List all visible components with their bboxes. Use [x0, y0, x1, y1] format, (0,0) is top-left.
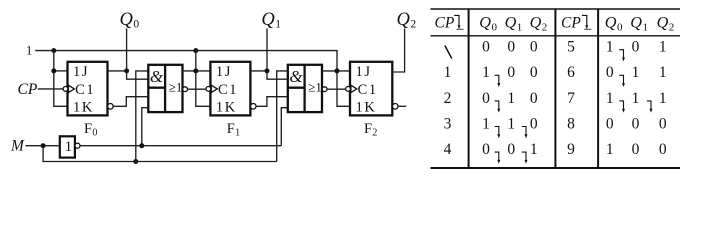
table row R4 (CP=8 state 000) [567, 115, 667, 132]
wire F0 Qbar to G1 OR-cell input [113, 97, 148, 107]
svg-text:0: 0 [530, 115, 538, 132]
table header CP left [435, 15, 464, 32]
svg-text:1: 1 [632, 90, 640, 107]
svg-text:1: 1 [606, 141, 614, 158]
junction constant-1 rail to F0 J/K branch [51, 48, 56, 53]
svg-text:Q2: Q2 [397, 10, 417, 31]
svg-text:≥1: ≥1 [308, 80, 322, 95]
wire constant-1 rail with corner down to F2 J input [35, 51, 337, 71]
svg-text:8: 8 [567, 115, 575, 132]
table top border [431, 8, 681, 10]
junction constant-1 rail to F1 J/K branch [193, 48, 198, 53]
svg-text:Q1: Q1 [505, 14, 523, 34]
svg-text:5: 5 [567, 39, 575, 56]
svg-text:F0: F0 [84, 121, 97, 139]
wire F2 Q output up to Q2 label [392, 29, 404, 73]
svg-text:7: 7 [567, 90, 575, 107]
svg-text:1: 1 [482, 64, 490, 81]
table column divider 3 [597, 9, 599, 168]
wire G1 output to F1 clock [188, 88, 207, 90]
flip-flop F0 (JK, negative edge) [63, 62, 113, 116]
junction J branch F2 [335, 68, 340, 73]
svg-text:C1: C1 [218, 82, 238, 98]
table row L5 (CP=4 state 001) [444, 141, 538, 164]
table row L3 (CP=2 state 010) [444, 90, 538, 113]
svg-text:&: & [289, 67, 303, 86]
svg-text:6: 6 [567, 64, 575, 81]
svg-text:0: 0 [632, 39, 640, 56]
svg-text:0: 0 [507, 39, 515, 56]
svg-text:Q2: Q2 [530, 14, 548, 34]
svg-text:1: 1 [606, 39, 614, 56]
wire CP to F0 clock [38, 88, 64, 90]
wire F1 Q output to Q1 node [250, 70, 267, 72]
svg-text:3: 3 [444, 115, 452, 132]
table header CP right [561, 15, 591, 32]
svg-text:1: 1 [632, 64, 640, 81]
svg-text:C1: C1 [75, 82, 95, 98]
wire F0 Q output to Q0 node [108, 70, 127, 72]
wire M rail up to G1 AND input [136, 71, 149, 162]
wire Q1 vertical and drop into gate G2 AND input [267, 29, 288, 80]
svg-text:1: 1 [507, 90, 515, 107]
svg-text:2: 2 [444, 90, 452, 107]
junction M rail tap for G1 [133, 159, 138, 164]
table header Q0 Q1 Q2 left [479, 14, 547, 34]
svg-text:Q0: Q0 [605, 14, 623, 34]
svg-text:0: 0 [482, 39, 490, 56]
junction J branch F1 [193, 68, 198, 73]
svg-text:0: 0 [632, 115, 640, 132]
svg-text:1: 1 [659, 64, 667, 81]
table column divider 2 [554, 9, 556, 168]
svg-text:Q1: Q1 [261, 10, 281, 31]
wire M rail (uninverted) along bottom [43, 146, 277, 162]
wire F1 Qbar to G2 OR-cell input [256, 97, 288, 107]
wire F0 1J input stub [54, 70, 68, 72]
label F0 [84, 121, 97, 139]
table header underline [431, 35, 681, 37]
svg-text:0: 0 [482, 141, 490, 158]
wire F1 1J input line [183, 70, 211, 72]
svg-text:1J: 1J [73, 64, 89, 80]
svg-text:M: M [10, 138, 25, 155]
svg-text:1K: 1K [356, 100, 377, 116]
svg-text:0: 0 [632, 141, 640, 158]
table bottom border [431, 167, 681, 169]
svg-text:0: 0 [507, 141, 515, 158]
svg-text:CP: CP [561, 15, 581, 32]
wire Mbar rail from inverter to G2 riser [80, 145, 281, 147]
svg-text:1: 1 [659, 90, 667, 107]
svg-text:F1: F1 [227, 121, 240, 139]
inverter U1 (logic 1 box) [60, 136, 80, 157]
svg-text:CP: CP [18, 81, 38, 98]
gate G2 (AND-OR-invert clock gate) [288, 65, 327, 112]
wire F2 Qbar stub [398, 105, 406, 107]
svg-text:1: 1 [482, 115, 490, 132]
table row R2 (CP=6 state 011) [567, 64, 667, 87]
svg-text:9: 9 [567, 141, 575, 158]
node Q1 label [261, 10, 281, 31]
node M label [10, 138, 25, 155]
wire F1 J-K tie from rail down to 1K [196, 51, 211, 107]
svg-text:1: 1 [606, 90, 614, 107]
label F2 [364, 121, 377, 139]
svg-text:1: 1 [65, 139, 73, 155]
svg-text:Q0: Q0 [479, 14, 497, 34]
table row L4 (CP=3 state 110) [444, 115, 538, 138]
wire M rail corner up to G2 AND input [277, 71, 288, 162]
svg-text:0: 0 [659, 115, 667, 132]
node Q0 label [120, 10, 140, 31]
label F1 [227, 121, 240, 139]
svg-text:1: 1 [530, 141, 538, 158]
flip-flop F1 (JK, negative edge) [206, 62, 256, 116]
svg-text:0: 0 [530, 90, 538, 107]
svg-text:0: 0 [606, 115, 614, 132]
wire F2 1J input line [322, 70, 350, 72]
wire Q0 vertical and drop into gate G1 AND input [127, 29, 149, 80]
wire F0 J-K tie from rail down to 1K [54, 51, 68, 107]
wire F2 J-K tie continues down to 1K [337, 71, 350, 106]
junction Q0 node [124, 68, 129, 73]
svg-text:&: & [150, 67, 164, 86]
junction Q1 node [265, 68, 270, 73]
table row R3 (CP=7 state 111) [567, 90, 667, 113]
table header Q0 Q1 Q2 right [605, 14, 675, 34]
junction J branch F0 [51, 68, 56, 73]
svg-text:1K: 1K [216, 100, 237, 116]
wire Mbar rail corner up to G2 OR-cell input [281, 108, 288, 146]
svg-text:C1: C1 [358, 82, 378, 98]
svg-text:F2: F2 [364, 121, 377, 139]
svg-text:CP: CP [435, 15, 455, 32]
table row R1 (CP=5 state 101) [567, 39, 667, 62]
table column divider 1 [468, 9, 470, 168]
svg-text:0: 0 [606, 64, 614, 81]
svg-text:1: 1 [444, 64, 452, 81]
junction Mbar rail tap for G1 [139, 143, 144, 148]
node Q2 label [397, 10, 417, 31]
svg-text:0: 0 [482, 90, 490, 107]
wire M input to inverter [26, 145, 60, 147]
svg-text:4: 4 [444, 141, 452, 158]
svg-text:1J: 1J [216, 64, 232, 80]
svg-text:1: 1 [659, 39, 667, 56]
svg-text:0: 0 [530, 39, 538, 56]
junction M input branch [41, 143, 46, 148]
svg-text:Q1: Q1 [630, 14, 648, 34]
table row L1 (CP= state 000) [445, 39, 538, 59]
svg-text:0: 0 [530, 64, 538, 81]
svg-text:0: 0 [659, 141, 667, 158]
svg-text:1J: 1J [356, 64, 372, 80]
wire Mbar rail up to G1 OR-cell input [142, 108, 149, 146]
svg-text:Q2: Q2 [657, 14, 675, 34]
svg-text:1: 1 [26, 44, 32, 58]
flip-flop F2 (JK, negative edge) [346, 62, 398, 116]
svg-text:1: 1 [507, 115, 515, 132]
wire G2 output to F2 clock [327, 88, 346, 90]
svg-text:0: 0 [507, 64, 515, 81]
svg-text:Q0: Q0 [120, 10, 140, 31]
svg-text:≥1: ≥1 [169, 80, 183, 95]
gate G1 (AND-OR-invert clock gate) [148, 65, 187, 112]
svg-text:1K: 1K [73, 100, 94, 116]
table row R5 (CP=9 state 100) [567, 141, 667, 158]
node 1 (constant high) label [26, 44, 32, 58]
node CP label [18, 81, 38, 98]
table row L2 (CP=1 state 100) [444, 64, 538, 87]
